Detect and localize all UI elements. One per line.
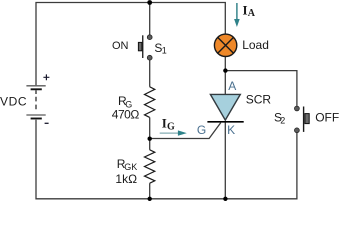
switch S2 actuator bar xyxy=(303,107,304,132)
SCR cathode bar xyxy=(207,121,243,123)
svg-text:G: G xyxy=(197,123,206,137)
switch S1 actuator bar xyxy=(142,35,143,58)
svg-text:I: I xyxy=(243,3,248,18)
arrow IA current xyxy=(236,3,238,20)
svg-text:Load: Load xyxy=(242,38,269,52)
wire top rail to S1 xyxy=(149,3,151,35)
resistor RG 470ohm zigzag xyxy=(145,87,155,118)
svg-text:VDC: VDC xyxy=(0,94,27,108)
battery short plate xyxy=(31,88,42,90)
svg-text:470Ω: 470Ω xyxy=(112,108,140,122)
load lamp cross xyxy=(218,37,234,53)
svg-text:1kΩ: 1kΩ xyxy=(115,172,137,186)
node junction below load xyxy=(223,68,227,72)
svg-text:A: A xyxy=(248,8,256,19)
svg-text:I: I xyxy=(162,115,167,130)
svg-text:OFF: OFF xyxy=(315,110,339,124)
wire RG to gate node xyxy=(149,117,151,138)
svg-text:G: G xyxy=(167,121,175,132)
node junction gate xyxy=(148,137,152,141)
battery long plate 2 xyxy=(26,114,45,116)
load lamp circle xyxy=(214,34,236,56)
arrow IG current xyxy=(160,132,179,134)
node junction top (above S1) xyxy=(147,0,152,5)
switch S1 button xyxy=(138,42,142,50)
switch S1 bottom contact xyxy=(147,55,152,60)
svg-text:ON: ON xyxy=(112,40,129,52)
wire load bottom to SCR anode xyxy=(224,57,226,95)
wire SCR cathode down xyxy=(224,122,226,199)
svg-text:SCR: SCR xyxy=(246,92,272,106)
svg-text:A: A xyxy=(228,79,236,93)
wire junction below load to S2 top xyxy=(225,71,297,106)
switch S2 button xyxy=(305,114,309,124)
resistor RGK 1kohm zigzag xyxy=(149,139,151,150)
battery VDC long plate + xyxy=(26,85,45,87)
SCR triangle xyxy=(210,94,240,120)
wire S1 to RG xyxy=(149,60,151,87)
wire bottom rail: battery bottom, bottom, right riser to S2 xyxy=(36,120,297,199)
switch S1 top contact xyxy=(147,35,152,40)
svg-text:K: K xyxy=(227,123,235,137)
svg-text:2: 2 xyxy=(280,115,285,125)
svg-text:GK: GK xyxy=(124,162,137,172)
battery cell gap dashes xyxy=(35,90,37,109)
battery minus sign xyxy=(45,122,49,124)
battery short plate 2 xyxy=(31,118,42,120)
svg-text:1: 1 xyxy=(162,46,167,56)
battery plus sign xyxy=(43,74,49,80)
wire gate lead xyxy=(150,123,221,139)
wire top rail and left drop to battery xyxy=(36,3,225,86)
node junction bottom cathode xyxy=(223,197,227,201)
switch S2 top contact xyxy=(295,106,300,111)
switch S2 bottom contact xyxy=(295,128,300,133)
node junction bottom left of RGK xyxy=(148,197,152,201)
